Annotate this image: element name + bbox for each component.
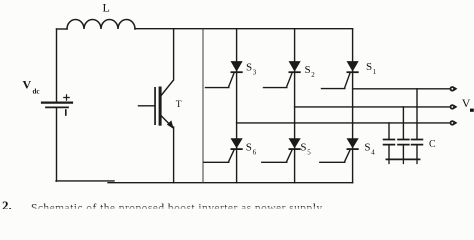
svg-text:S: S xyxy=(246,62,252,74)
svg-text:V: V xyxy=(462,96,471,110)
svg-text:S: S xyxy=(364,141,370,153)
svg-text:2: 2 xyxy=(311,71,315,79)
svg-text:T: T xyxy=(176,100,182,110)
svg-text:6: 6 xyxy=(253,148,257,156)
svg-text:C: C xyxy=(429,139,436,150)
svg-text:4: 4 xyxy=(371,148,375,156)
svg-text:1: 1 xyxy=(373,68,377,76)
svg-text:2.: 2. xyxy=(2,198,12,209)
svg-text:3: 3 xyxy=(253,69,257,77)
svg-text:S: S xyxy=(246,141,252,153)
svg-text:5: 5 xyxy=(307,148,311,156)
svg-text:S: S xyxy=(300,141,306,153)
svg-text:V: V xyxy=(23,78,32,92)
svg-text:S: S xyxy=(305,64,311,76)
svg-text:dc: dc xyxy=(33,88,40,96)
svg-text:L: L xyxy=(103,1,110,15)
svg-text:S: S xyxy=(366,61,372,73)
